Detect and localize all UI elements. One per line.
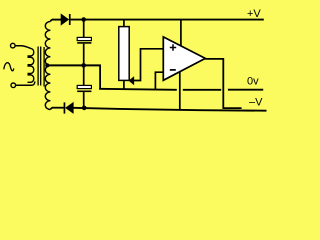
- diode D1: [61, 14, 69, 25]
- secondary bottom lead: [50, 108, 53, 110]
- op-amp inverting input wire: [155, 72, 163, 90]
- op-amp V- wire: [179, 72, 181, 110]
- transformer core: [37, 47, 39, 86]
- node: -V / C2 junction: [82, 106, 87, 111]
- transformer T1 primary winding: [28, 49, 34, 83]
- op-amp - symbol: [170, 69, 176, 71]
- wire AC top to primary: [15, 46, 31, 49]
- svg-text:+V: +V: [247, 8, 261, 20]
- wire C1 to centre tap line: [83, 44, 85, 66]
- potentiometer wiper arrow: [129, 77, 134, 85]
- svg-text:0v: 0v: [247, 75, 259, 87]
- diode D2: [64, 102, 66, 113]
- op-amp U1: [163, 37, 205, 80]
- node: centre tap / C1-C2 junction: [81, 63, 86, 68]
- transformer secondary bar: [43, 47, 45, 87]
- wiper wire: [133, 49, 163, 81]
- AC input terminal top: [11, 43, 16, 48]
- wire centre tap down to 0v rail: [99, 65, 101, 89]
- wire rail to C1: [83, 20, 85, 38]
- wire rail to potentiometer R1: [123, 20, 125, 27]
- capacitor C1: [77, 37, 91, 40]
- AC sine symbol: [4, 63, 14, 71]
- -V rail: [73, 108, 266, 111]
- svg-text:–V: –V: [249, 96, 263, 108]
- potentiometer R1 body: [119, 27, 129, 81]
- wire C2 to -V rail: [83, 92, 85, 108]
- -V rail left of diode: [52, 107, 64, 109]
- op-amp output wire: [205, 59, 242, 108]
- top rail (+V) left of diode: [52, 19, 61, 21]
- op-amp + symbol: [170, 44, 176, 50]
- 0v rail segment 1: [99, 89, 177, 90]
- transformer T1 secondary winding: [45, 22, 50, 110]
- op-amp V+ wire: [180, 20, 182, 46]
- 0v rail segment 2: [183, 89, 221, 91]
- AC input terminal bottom: [11, 83, 16, 88]
- capacitor C2: [83, 66, 85, 86]
- top rail (+V) right of diode: [71, 19, 264, 21]
- centre tap node at secondary: [45, 63, 49, 67]
- wire AC bottom to primary: [16, 82, 35, 86]
- wire R1 to 0v rail: [123, 80, 125, 89]
- centre tap wire: [46, 64, 101, 66]
- 0v rail segment 3: [228, 89, 263, 91]
- node: +V / C1 junction: [81, 17, 86, 22]
- secondary top lead: [50, 20, 53, 22]
